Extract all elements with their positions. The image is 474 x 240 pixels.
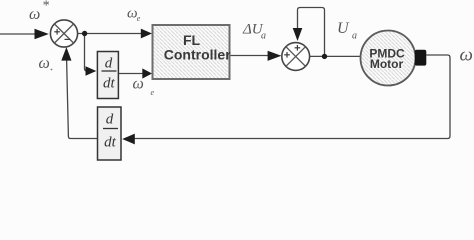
svg-text:U: U: [337, 20, 350, 37]
svg-text:ω: ω: [39, 55, 50, 72]
svg-text:FL: FL: [183, 32, 201, 48]
svg-text:ω: ω: [29, 6, 40, 23]
svg-text:d: d: [105, 56, 113, 72]
svg-text:*: *: [42, 0, 49, 14]
svg-text:ω: ω: [133, 76, 144, 93]
svg-text:dt: dt: [104, 135, 117, 151]
svg-text:dt: dt: [103, 76, 116, 92]
svg-text:a: a: [261, 31, 266, 42]
svg-text:a: a: [352, 31, 357, 42]
svg-text:Controller: Controller: [164, 47, 231, 63]
svg-text:d: d: [106, 112, 114, 128]
svg-text:e: e: [151, 88, 155, 97]
svg-text:e: e: [137, 14, 141, 23]
svg-text:Motor: Motor: [370, 57, 404, 71]
svg-text:ω: ω: [460, 45, 473, 66]
